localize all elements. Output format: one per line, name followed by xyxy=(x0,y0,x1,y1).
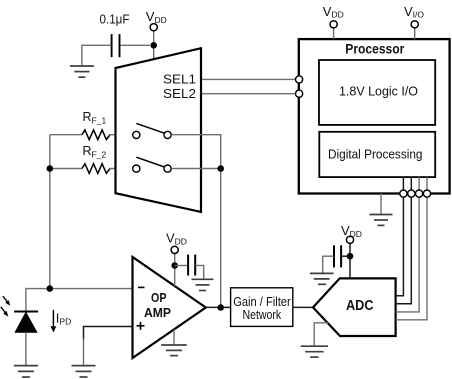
supply VDD (op-amp) xyxy=(166,231,187,287)
svg-text:Processor: Processor xyxy=(345,40,404,56)
wire: SW1 to right rail xyxy=(172,134,221,136)
photodiode D1 xyxy=(14,312,38,333)
ground (C1) xyxy=(70,66,94,77)
pin circle bus 1 xyxy=(400,190,407,197)
svg-text:Digital Processing: Digital Processing xyxy=(328,147,423,161)
junction dot (ADC VDD / C3) xyxy=(347,253,354,260)
svg-text:0.1μF: 0.1μF xyxy=(100,11,130,26)
ground (processor) xyxy=(370,215,393,226)
wire: op-amp to ground xyxy=(173,330,175,345)
wire: non-inverting input xyxy=(84,327,133,341)
capacitor C3 (ADC bypass) xyxy=(323,245,350,273)
digital processing block xyxy=(319,132,435,177)
pin circle bus 2 xyxy=(408,190,415,197)
wire: inverting input xyxy=(26,288,133,290)
junction dot (op-amp VDD / C2) xyxy=(171,262,178,269)
svg-text:AMP: AMP xyxy=(144,305,171,320)
wire: gain/filter to ADC xyxy=(293,306,313,308)
ground (C2) xyxy=(192,279,214,290)
pin circle SEL2 xyxy=(296,90,303,97)
processor block xyxy=(299,39,450,193)
pin circle bus 4 xyxy=(423,190,430,197)
wire: data bus line 1 xyxy=(396,177,404,296)
wire: to photodiode xyxy=(25,288,27,312)
svg-text:OP: OP xyxy=(151,290,167,305)
switch SW1 xyxy=(133,123,172,138)
ground (photodiode) xyxy=(14,366,38,377)
ground (non-inverting input) xyxy=(72,366,96,377)
wire: SEL1 xyxy=(201,78,319,80)
svg-text:SEL2: SEL2 xyxy=(163,86,196,101)
wire: right output rail xyxy=(220,135,222,308)
capacitor C2 (op-amp bypass) xyxy=(175,255,204,280)
svg-text:Network: Network xyxy=(243,308,282,322)
label SEL2 xyxy=(163,86,196,101)
mux U2 (switch block) xyxy=(116,48,202,212)
light arrow 2 xyxy=(1,307,9,317)
ground (C3) xyxy=(310,273,334,284)
pin circle bus 3 xyxy=(416,190,423,197)
label SEL1 xyxy=(163,71,196,86)
wire: op-amp output xyxy=(206,306,231,308)
ground (op-amp) xyxy=(161,345,187,356)
wire: SW2 to right rail xyxy=(172,168,221,170)
wire: processor to ground xyxy=(380,193,382,214)
wire: ADC to ground xyxy=(314,323,328,346)
pin circle SEL1 xyxy=(296,76,303,83)
current arrow IPD xyxy=(51,310,72,333)
wire: data bus line 4 xyxy=(396,177,427,320)
ground (ADC) xyxy=(301,346,328,357)
op-amp U1 xyxy=(133,257,206,358)
supply VIO (processor) xyxy=(404,4,424,39)
supply VDD (processor) xyxy=(323,4,344,39)
wire: non-inverting input to ground xyxy=(83,338,85,366)
capacitor C1 0.1uF xyxy=(82,11,150,57)
wire: data bus line 3 xyxy=(396,177,420,312)
junction dot (VDD / C1) xyxy=(150,42,157,49)
svg-text:ADC: ADC xyxy=(346,298,374,314)
svg-text:Gain / Filter: Gain / Filter xyxy=(233,295,291,309)
ADC U3 xyxy=(313,278,396,336)
svg-text:SEL1: SEL1 xyxy=(163,71,196,86)
resistor RF_2 xyxy=(50,144,133,173)
supply VDD (ADC) xyxy=(341,223,362,278)
junction dot (left rail / inverting input) xyxy=(47,285,54,292)
supply VDD (mux) xyxy=(146,9,167,60)
junction dot (left rail / RF_2) xyxy=(47,165,54,172)
wire: SEL2 xyxy=(201,93,319,95)
wire: left feedback rail xyxy=(49,135,51,289)
junction dot (output / right rail) xyxy=(217,304,224,311)
1.8V logic I/O block xyxy=(319,60,435,125)
resistor RF_1 xyxy=(50,110,133,140)
gain/filter network block xyxy=(231,288,293,327)
wire: photodiode to ground xyxy=(25,332,27,365)
light arrow 1 xyxy=(3,296,11,306)
switch SW2 xyxy=(133,157,172,172)
wire: data bus line 2 xyxy=(396,177,412,304)
junction dot (right rail / SW2) xyxy=(217,165,224,172)
svg-text:1.8V Logic I/O: 1.8V Logic I/O xyxy=(339,84,418,98)
wire: C1 to ground xyxy=(81,45,83,66)
